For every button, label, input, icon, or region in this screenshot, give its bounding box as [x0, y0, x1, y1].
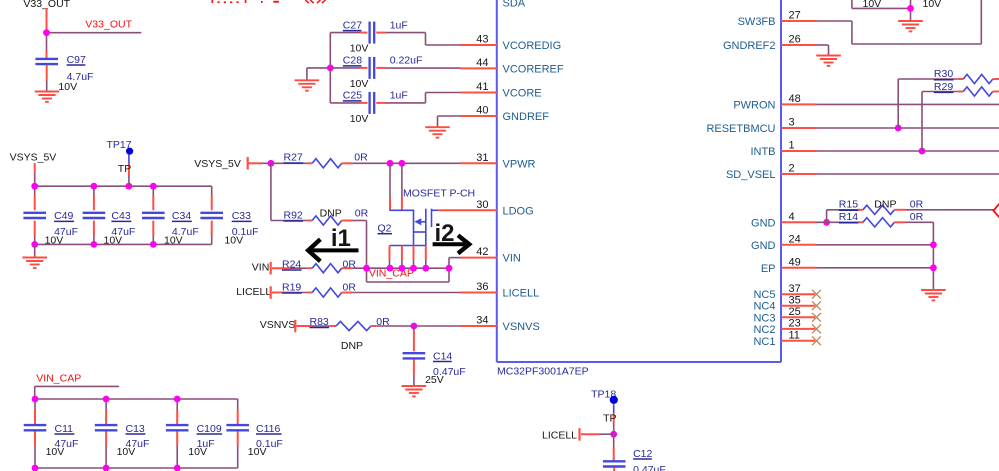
svg-text:TP: TP — [118, 163, 131, 175]
svg-text:49: 49 — [789, 256, 801, 268]
svg-text:R83: R83 — [310, 316, 329, 328]
svg-text:VSYS_5V: VSYS_5V — [10, 151, 57, 163]
svg-text:VCOREDIG: VCOREDIG — [503, 40, 562, 52]
svg-text:GNDREF: GNDREF — [503, 111, 550, 123]
svg-text:C25: C25 — [343, 90, 362, 102]
svg-text:R27: R27 — [284, 151, 303, 163]
svg-text:10V: 10V — [58, 81, 77, 93]
svg-text:10V: 10V — [117, 446, 136, 458]
svg-text:48: 48 — [789, 93, 801, 105]
svg-text:C97: C97 — [67, 54, 86, 66]
svg-text:10V: 10V — [248, 446, 267, 458]
svg-text:C33: C33 — [232, 210, 251, 222]
svg-text:0R: 0R — [910, 199, 924, 211]
svg-text:42: 42 — [476, 246, 488, 258]
svg-text:0R: 0R — [376, 316, 390, 328]
svg-text:40: 40 — [476, 105, 488, 117]
svg-text:30: 30 — [476, 199, 488, 211]
svg-text:V33_OUT: V33_OUT — [85, 18, 132, 30]
svg-text:10V: 10V — [104, 235, 123, 247]
svg-text:VCOREREF: VCOREREF — [503, 63, 564, 75]
svg-text:C49: C49 — [54, 210, 73, 222]
svg-text:VSYS_5V: VSYS_5V — [194, 158, 241, 170]
svg-text:VSNVS: VSNVS — [260, 319, 296, 331]
svg-text:11: 11 — [789, 330, 800, 342]
svg-text:VSNVS: VSNVS — [503, 321, 540, 333]
svg-text:10V: 10V — [188, 446, 207, 458]
svg-text:C14: C14 — [433, 350, 452, 362]
svg-text:NC4: NC4 — [753, 301, 775, 313]
svg-text:C34: C34 — [172, 210, 191, 222]
svg-text:0R: 0R — [343, 281, 357, 293]
svg-text:C28: C28 — [343, 55, 362, 67]
svg-text:25: 25 — [789, 306, 801, 318]
svg-text:26: 26 — [789, 34, 801, 46]
svg-text:10V: 10V — [350, 43, 369, 55]
svg-text:MC32PF3001A7EP: MC32PF3001A7EP — [497, 366, 589, 378]
svg-text:i2: i2 — [435, 220, 455, 247]
svg-text:LDOG: LDOG — [503, 205, 534, 217]
svg-text:2: 2 — [789, 163, 795, 175]
svg-text:R29: R29 — [934, 81, 953, 93]
svg-text:0R: 0R — [910, 211, 924, 223]
svg-text:EP: EP — [761, 263, 776, 275]
svg-text:1: 1 — [789, 140, 795, 152]
svg-text:4: 4 — [789, 211, 795, 223]
svg-text:C13: C13 — [126, 423, 145, 435]
svg-text:NC1: NC1 — [753, 336, 775, 348]
svg-text:C116: C116 — [256, 423, 280, 435]
svg-text:DNP: DNP — [320, 208, 342, 220]
svg-text:GND: GND — [751, 240, 776, 252]
svg-text:GND: GND — [751, 217, 776, 229]
svg-text:10V: 10V — [164, 235, 183, 247]
svg-text:VIN: VIN — [503, 253, 521, 265]
svg-text:10V: 10V — [923, 0, 942, 10]
svg-text:10V: 10V — [46, 446, 65, 458]
svg-text:10V: 10V — [224, 235, 243, 247]
svg-text:31: 31 — [476, 152, 488, 164]
svg-text:SDA: SDA — [503, 0, 526, 10]
svg-text:R15: R15 — [839, 199, 858, 211]
svg-text:0R: 0R — [354, 151, 368, 163]
svg-text:VIN_CAP: VIN_CAP — [36, 372, 81, 384]
svg-text:DNP: DNP — [874, 199, 896, 211]
svg-text:LICELL: LICELL — [542, 429, 577, 441]
svg-text:23: 23 — [789, 318, 801, 330]
svg-text:i1: i1 — [331, 225, 351, 252]
svg-text:25V: 25V — [425, 374, 444, 386]
svg-text:10V: 10V — [350, 78, 369, 90]
svg-text:SW3FB: SW3FB — [738, 16, 776, 28]
svg-text:0.22uF: 0.22uF — [390, 55, 423, 67]
svg-text:35: 35 — [789, 295, 801, 307]
svg-text:3: 3 — [789, 117, 795, 129]
svg-text:NC5: NC5 — [753, 289, 775, 301]
svg-text:TP: TP — [603, 413, 616, 425]
svg-text:MOSFET P-CH: MOSFET P-CH — [403, 188, 475, 200]
svg-text:34: 34 — [476, 315, 488, 327]
svg-text:LICELL: LICELL — [236, 286, 271, 298]
svg-text:R14: R14 — [839, 211, 858, 223]
svg-text:INTB: INTB — [750, 146, 775, 158]
svg-text:R24: R24 — [282, 258, 301, 270]
svg-text:C43: C43 — [111, 210, 130, 222]
svg-text:NC2: NC2 — [753, 324, 775, 336]
svg-text:NC3: NC3 — [753, 312, 775, 324]
svg-text:36: 36 — [476, 281, 488, 293]
svg-text:LICELL: LICELL — [503, 288, 540, 300]
svg-text:10V: 10V — [863, 0, 882, 10]
svg-text:37: 37 — [789, 283, 801, 295]
svg-text:VIN: VIN — [252, 262, 270, 274]
svg-text:43: 43 — [476, 34, 488, 46]
svg-text:0R: 0R — [343, 258, 357, 270]
svg-text:RESETBMCU: RESETBMCU — [706, 123, 775, 135]
svg-text:C27: C27 — [343, 19, 362, 31]
svg-text:PWRON: PWRON — [733, 99, 775, 111]
svg-text:10V: 10V — [350, 113, 369, 125]
svg-text:10V: 10V — [45, 235, 64, 247]
svg-text:R30: R30 — [934, 68, 953, 80]
svg-text:Q2: Q2 — [378, 223, 392, 235]
svg-text:C11: C11 — [55, 423, 74, 435]
svg-text:C109: C109 — [197, 423, 222, 435]
svg-text:27: 27 — [789, 10, 801, 22]
svg-text:1uF: 1uF — [390, 90, 408, 102]
svg-text:SD_VSEL: SD_VSEL — [726, 169, 776, 181]
svg-text:24: 24 — [789, 233, 801, 245]
svg-text:DNP: DNP — [341, 340, 363, 352]
svg-text:GNDREF2: GNDREF2 — [723, 40, 776, 52]
svg-text:41: 41 — [476, 81, 488, 93]
svg-text:0R: 0R — [355, 208, 369, 220]
svg-text:VCORE: VCORE — [503, 88, 542, 100]
svg-text:0.47uF: 0.47uF — [633, 464, 666, 471]
svg-text:R92: R92 — [284, 209, 303, 221]
svg-text:1uF: 1uF — [390, 19, 408, 31]
svg-text:VPWR: VPWR — [503, 158, 536, 170]
svg-text:TP17: TP17 — [107, 139, 132, 151]
svg-text:44: 44 — [476, 57, 488, 69]
svg-text:C12: C12 — [633, 448, 652, 460]
svg-text:R19: R19 — [282, 281, 301, 293]
